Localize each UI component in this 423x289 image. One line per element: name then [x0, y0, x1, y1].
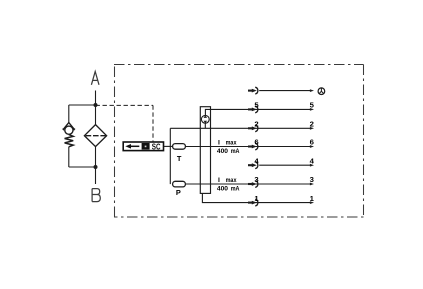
svg-text:mA: mA: [231, 186, 240, 193]
svg-text:2: 2: [254, 120, 258, 129]
connector pin 1: [248, 199, 258, 206]
svg-text:P: P: [176, 188, 181, 197]
wire: bypass branch top: [69, 104, 96, 106]
svg-text:5: 5: [310, 101, 315, 110]
port T restrictor oval: [173, 144, 186, 150]
check valve CV (bypass) seat: [63, 123, 74, 130]
connector pin 2: [248, 125, 258, 132]
internal wire circle to line 2: [204, 123, 206, 128]
wire: indicator to valve block: [164, 145, 173, 147]
connector pin 6: [248, 143, 258, 150]
port label A: [91, 72, 99, 85]
indicator arrow: [125, 144, 139, 149]
internal wire: body bottom to line 1: [202, 193, 210, 202]
check valve CV ball: [65, 126, 73, 134]
internal elbow to pin 5: [205, 109, 210, 115]
wire: bypass branch left vertical upper: [68, 105, 70, 123]
wire from A down to node: [95, 91, 97, 106]
node: filter inlet junction: [94, 103, 98, 107]
connector pin 4: [248, 162, 258, 169]
pilot line (dashed) from node A to indicator: [96, 104, 154, 106]
wire: node to B: [95, 167, 97, 184]
port label B: [92, 189, 100, 202]
enclosure dashed border (phantom line): [114, 65, 364, 218]
indicator solenoid block: [142, 143, 150, 150]
svg-text:5: 5: [254, 101, 259, 110]
internal chevrons: [204, 116, 208, 118]
node: filter outlet junction: [94, 165, 98, 169]
internal metering circle: [201, 115, 209, 123]
wire: node A to filter: [95, 105, 97, 125]
wire 4: [259, 164, 311, 166]
protective earth symbol: [318, 88, 325, 95]
svg-text:max: max: [226, 177, 237, 184]
wire: filter to node B: [95, 147, 97, 167]
svg-text:1: 1: [254, 194, 259, 203]
svg-text:6: 6: [254, 138, 258, 147]
svg-text:4: 4: [310, 156, 315, 165]
connector pin 3: [248, 181, 258, 188]
wire 6: [185, 146, 311, 148]
svg-text:6: 6: [310, 138, 314, 147]
spring of bypass valve: [65, 135, 74, 147]
port P restrictor oval: [173, 181, 186, 187]
svg-text:SC: SC: [152, 142, 161, 151]
svg-text:400: 400: [217, 186, 228, 193]
wire: left vertical bus of valve ports: [169, 128, 171, 184]
svg-text:I: I: [218, 139, 220, 146]
pilot line (dashed) vertical down to indicator: [152, 105, 154, 141]
svg-text:T: T: [177, 154, 182, 163]
svg-text:3: 3: [254, 175, 258, 184]
clogging indicator S (switch box): [123, 142, 163, 151]
wire PE (earth): [259, 90, 311, 92]
wire 3: [185, 183, 311, 185]
svg-text:max: max: [226, 139, 237, 146]
wire: bypass branch bottom: [69, 166, 96, 168]
svg-text:2: 2: [310, 120, 314, 129]
arrowhead PE end: [310, 89, 314, 92]
svg-text:3: 3: [310, 175, 314, 184]
filter F1 (diamond): [84, 125, 106, 147]
svg-text:mA: mA: [231, 148, 240, 155]
connector pin PE: [248, 87, 258, 94]
wire 2: [170, 127, 311, 129]
connector pin 5: [248, 106, 258, 113]
wire 1: [210, 202, 311, 204]
amplifier / connector body (tall rectangle): [200, 107, 210, 194]
wire 5: [211, 108, 312, 110]
svg-text:4: 4: [254, 156, 259, 165]
svg-text:1: 1: [310, 194, 315, 203]
svg-text:I: I: [218, 177, 220, 184]
wire: bypass branch left vertical lower: [68, 147, 70, 167]
filter F1 element (dashed): [86, 135, 106, 137]
svg-text:400: 400: [217, 148, 228, 155]
